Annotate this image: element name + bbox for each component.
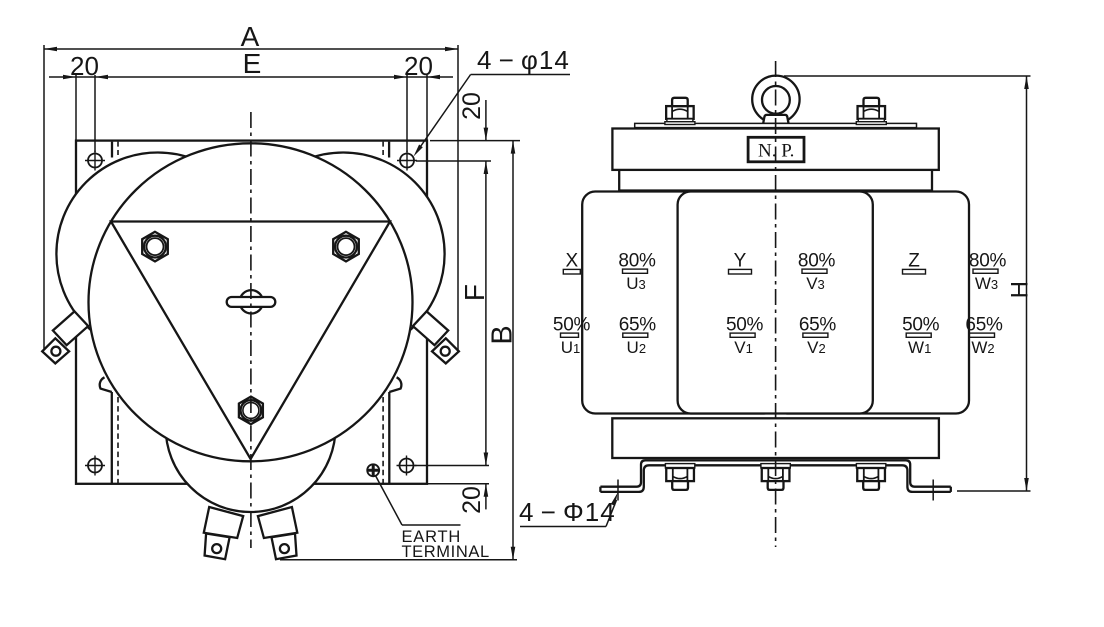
left lug tip [205,534,230,560]
svg-text:20: 20 [70,51,99,81]
svg-text:80%: 80% [618,251,656,272]
coil W (right) [774,192,969,414]
left lug hole [212,544,221,553]
clamp strip right dashed stub [382,142,384,158]
label 4-phi14 top leader [416,75,471,154]
hex nut upper-right [333,232,359,262]
svg-text:65%: 65% [965,315,1003,336]
core clamp right edge [931,170,933,191]
clamp strip right solid edge [388,392,390,484]
center screw slot [227,297,276,307]
svg-text:F: F [459,284,490,301]
clamp strip left solid stub [111,142,113,158]
svg-text:Y: Y [734,251,747,272]
lifting eye ring [752,76,799,123]
svg-text:65%: 65% [619,315,657,336]
mounting bracket inner edge [600,460,950,486]
top gasket strip [635,123,917,127]
dimension A extension line left [43,45,45,351]
svg-text:65%: 65% [799,315,837,336]
svg-text:V1: V1 [734,338,753,357]
svg-text:20: 20 [458,92,486,120]
svg-text:50%: 50% [553,315,591,336]
clamp strip right solid stub [388,142,390,158]
left tab hole [51,347,60,356]
lifting eye shank [763,115,789,124]
dimension A line [44,48,458,50]
right tab tip with hole [432,338,459,363]
cover bolt right [858,106,886,119]
center screw circle [240,290,263,313]
extension line plate left edge [75,75,77,141]
svg-text:20: 20 [404,51,433,81]
extension line right hole center [406,75,408,152]
triangle core outline [111,222,390,460]
svg-text:U1: U1 [561,338,581,357]
bracket right end cap [950,487,952,492]
bracket left end cap [599,487,601,492]
extension line lug bottom [280,559,517,561]
foot hole mark right [932,480,934,501]
hex nut bottom [239,397,263,425]
clamp clip hook left [100,377,112,392]
base bolt left [665,464,694,468]
top cover block [612,129,938,170]
svg-text:50%: 50% [726,315,764,336]
clamp clip hook right [389,377,401,392]
extension line bottom hole right [415,465,489,467]
mounting hole top-left [88,154,102,168]
coil V (center) [678,192,873,414]
cover bolt left [666,106,694,119]
mounting hole bottom-right [400,459,414,473]
right tab body [413,311,448,345]
clamp strip left dashed stub [117,142,119,158]
svg-text:80%: 80% [798,251,836,272]
core clamp left edge [618,170,620,191]
foot hole mark left [617,480,619,501]
centerline left view [250,112,252,548]
mounting hole top-right [400,154,414,168]
coil U (left) [582,192,777,414]
dimension B line [512,141,514,560]
N.P. nameplate [748,137,804,162]
base bolt center [761,464,790,468]
earth terminal screw [367,464,379,476]
coil circle bottom [166,342,336,512]
svg-text:E: E [243,48,262,79]
extension line left hole center [94,75,96,152]
svg-text:20: 20 [458,486,486,514]
extension line top hole right [416,160,491,162]
coil circle left [56,153,259,356]
dimension A extension line right [457,45,459,351]
svg-text:U3: U3 [626,274,646,293]
svg-text:W3: W3 [975,274,998,293]
dimension H bottom extension [957,490,1031,492]
extension line plate right edge [426,75,428,141]
svg-text:4 − φ14: 4 − φ14 [477,45,570,75]
clamp strip left solid edge [111,392,113,484]
svg-text:V3: V3 [806,274,825,293]
left lug body [204,507,243,538]
svg-text:V2: V2 [807,338,826,357]
svg-text:B: B [487,325,519,344]
svg-text:4 − Φ14: 4 − Φ14 [519,497,616,527]
right lug hole [280,544,289,553]
base bolt right [856,464,885,468]
svg-text:Z: Z [908,251,920,272]
mounting bracket outer edge [600,465,950,492]
dimension 20 top-right stub [485,100,487,141]
dimension H top extension [784,75,1031,77]
hex nut upper-left [142,232,168,262]
dimension H line [1026,76,1028,491]
svg-text:50%: 50% [902,315,940,336]
right lug body [258,507,297,538]
svg-text:N. P.: N. P. [758,141,794,162]
dimension F line [485,161,487,466]
svg-text:TERMINAL: TERMINAL [402,543,490,561]
left tab tip with hole [42,338,69,363]
core clamp bottom edge [619,189,932,191]
base block [612,418,939,458]
svg-text:X: X [565,251,578,272]
earth terminal leader [376,476,402,525]
right tab hole [441,347,450,356]
clamp strip left hidden edge [117,397,119,484]
dimension 20 bottom-right stub [485,484,487,510]
svg-text:W1: W1 [908,338,931,357]
main cover ellipse [89,143,413,461]
svg-text:U2: U2 [627,338,647,357]
left tab body [53,311,88,345]
mounting hole bottom-left [88,459,102,473]
extension line plate bottom right [428,483,489,485]
extension line plate top right [430,140,520,142]
svg-text:H: H [1006,281,1033,298]
svg-text:80%: 80% [969,251,1007,272]
svg-text:W2: W2 [971,338,994,357]
coil circle right [242,153,445,356]
right lug tip [272,534,297,560]
dimension E line with 20 offsets [49,76,453,78]
plate (mounting square) [76,141,427,484]
clamp strip right hidden edge [382,397,384,484]
centerline right view [775,61,777,547]
